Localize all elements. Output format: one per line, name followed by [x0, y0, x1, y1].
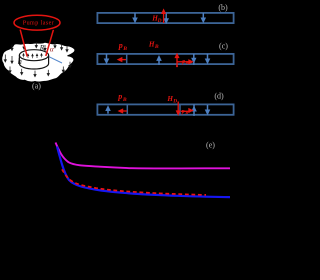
svg-text:B: B — [154, 44, 159, 50]
svg-text:B: B — [184, 110, 188, 115]
svg-text:p: p — [117, 92, 122, 101]
svg-text:B: B — [122, 97, 127, 103]
svg-text:R: R — [39, 44, 45, 52]
svg-text:D: D — [157, 18, 162, 24]
svg-text:h: h — [18, 56, 22, 66]
svg-text:D: D — [172, 99, 177, 105]
svg-text:(a): (a) — [32, 82, 41, 91]
svg-text:(c): (c) — [219, 41, 228, 50]
svg-text:B: B — [122, 46, 127, 52]
svg-text:Pump laser: Pump laser — [23, 21, 54, 27]
svg-text:p: p — [181, 109, 185, 115]
svg-text:(d): (d) — [214, 91, 224, 100]
svg-text:(e): (e) — [206, 140, 215, 149]
svg-text:H: H — [148, 40, 155, 48]
svg-text:B: B — [185, 60, 189, 65]
svg-text:(b): (b) — [218, 3, 228, 12]
svg-text:p: p — [118, 41, 123, 50]
svg-text:p: p — [181, 59, 185, 65]
